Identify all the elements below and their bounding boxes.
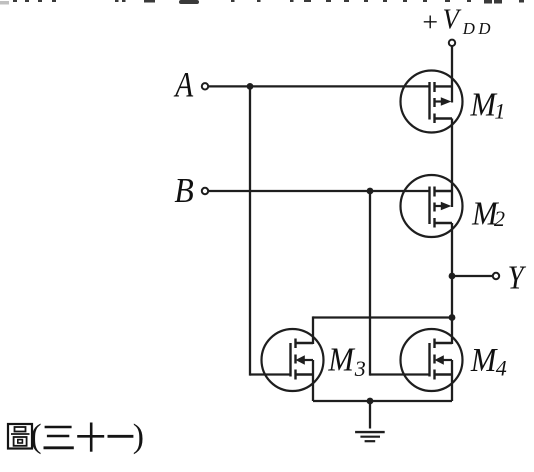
svg-text:1: 1 bbox=[494, 98, 505, 123]
svg-text:A: A bbox=[173, 66, 194, 105]
svg-text:DD: DD bbox=[462, 19, 494, 38]
svg-text:+: + bbox=[422, 7, 438, 38]
svg-text:2: 2 bbox=[494, 206, 505, 231]
svg-text:(: ( bbox=[30, 418, 41, 455]
svg-text:B: B bbox=[174, 172, 193, 211]
svg-text:M: M bbox=[327, 340, 355, 378]
svg-text:): ) bbox=[133, 418, 144, 455]
svg-text:M: M bbox=[470, 341, 498, 379]
svg-text:3: 3 bbox=[354, 356, 366, 381]
svg-text:4: 4 bbox=[496, 356, 507, 381]
